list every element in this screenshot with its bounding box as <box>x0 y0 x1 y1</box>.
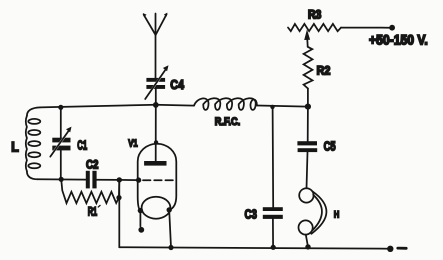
wire: bottom rail <box>119 247 390 249</box>
node: tank bottom / C1 <box>59 177 64 182</box>
resistor R2 <box>304 47 313 107</box>
antenna <box>143 13 168 78</box>
capacitor C1 (variable) <box>50 107 71 179</box>
resistor R1 <box>61 179 119 203</box>
capacitor C3 <box>263 107 283 247</box>
resistor R3 <box>288 24 341 31</box>
svg-text:C5: C5 <box>324 139 336 153</box>
wire: grid lead <box>119 179 138 181</box>
node: R2/C5 top <box>305 104 311 110</box>
tube V1 envelope <box>138 144 177 211</box>
wire: C4 junction to RFC <box>156 104 194 107</box>
node: cathode left <box>138 208 143 213</box>
node: grid lead at tube <box>136 177 141 182</box>
inductor RFC <box>194 98 257 110</box>
wiper arrow into R3 <box>306 38 309 47</box>
wire: filament lead right (to rail) <box>169 210 171 247</box>
inductor L <box>26 107 41 179</box>
svg-text:R.F.C.: R.F.C. <box>215 116 240 128</box>
cathode circle of V1 <box>142 197 171 219</box>
node: top rail / C1 <box>58 105 63 110</box>
svg-text:C4: C4 <box>170 77 184 92</box>
capacitor C4 <box>145 65 168 105</box>
terminal: filament <box>138 227 144 233</box>
terminal: B- <box>387 246 393 252</box>
node: filament right / rail <box>168 245 173 250</box>
headphones H <box>299 188 327 247</box>
svg-text:+50-150 V.: +50-150 V. <box>369 32 428 47</box>
anode plate of V1 <box>144 161 166 166</box>
svg-text:C1: C1 <box>77 138 87 153</box>
wire: top rail left (tank top to C4 junction) <box>40 105 156 108</box>
wire: R3 to supply terminal <box>341 27 389 29</box>
capacitor C2 <box>86 171 120 189</box>
svg-text:H: H <box>334 210 339 221</box>
node: R1/grid <box>116 195 121 200</box>
svg-text:R3: R3 <box>308 10 321 22</box>
node: plate/antenna junction <box>153 102 159 108</box>
wire: RFC to R2 node <box>258 106 308 107</box>
svg-text:R2: R2 <box>317 65 331 77</box>
svg-text:C2: C2 <box>86 158 99 172</box>
capacitor C5 <box>297 107 317 189</box>
wire: grid (dashed, inside tube) <box>143 179 174 181</box>
node: C3 top <box>270 105 274 109</box>
svg-text:C3: C3 <box>245 207 257 221</box>
svg-text:R1: R1 <box>88 205 98 219</box>
svg-text:L: L <box>11 139 19 154</box>
node: C3 / rail <box>271 245 276 250</box>
node: grid junction <box>117 177 122 182</box>
wire: tank bottom <box>38 178 86 180</box>
node: cathode right <box>167 207 172 212</box>
minus mark <box>398 247 406 250</box>
svg-text:V1: V1 <box>128 137 138 149</box>
wire: filament lead left <box>139 211 141 227</box>
node: anode lead at envelope apex <box>154 140 158 144</box>
wire: grid node down to ground rail <box>118 180 120 247</box>
node: H / rail <box>305 244 310 249</box>
terminal: B+ <box>389 25 395 31</box>
wire: anode lead <box>155 105 157 162</box>
